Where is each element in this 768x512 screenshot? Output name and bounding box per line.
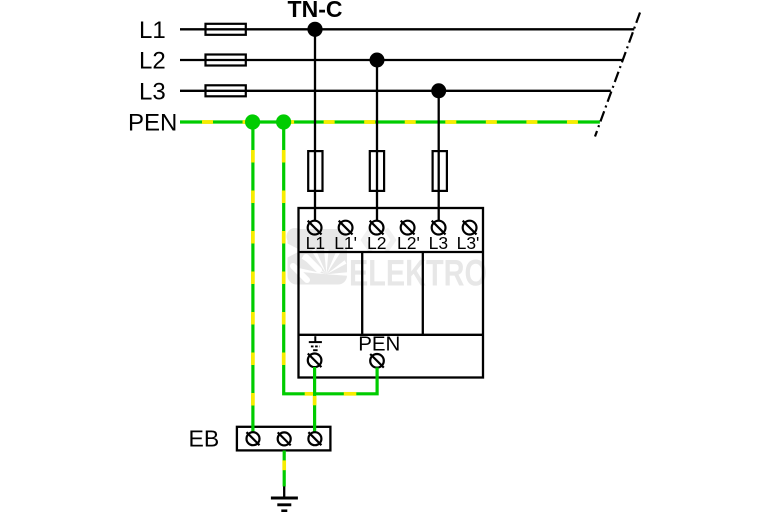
wire L1 horizontal	[180, 28, 634, 30]
terminal L3'	[463, 221, 477, 235]
terminal L1	[308, 221, 322, 235]
SPD box vertical divider 2	[422, 252, 424, 335]
svg-text:L3: L3	[429, 233, 448, 253]
svg-text:L1: L1	[139, 17, 166, 44]
earth wire from SPD earth terminal to EB	[313, 367, 316, 433]
svg-text:L3': L3'	[457, 233, 480, 253]
terminal L3	[432, 221, 446, 235]
EB terminal 1	[247, 432, 260, 445]
svg-text:ELEKTRO: ELEKTRO	[349, 251, 487, 293]
wire L2 horizontal	[180, 59, 623, 61]
SPD box divider above bottom row	[299, 334, 484, 336]
svg-text:L2: L2	[367, 233, 386, 253]
svg-text:EB: EB	[189, 426, 220, 452]
svg-text:L2: L2	[139, 48, 166, 75]
earth symbol inside SPD	[309, 336, 322, 350]
node PEN 2 (green junction dot)	[276, 114, 291, 129]
svg-text:PEN: PEN	[128, 110, 177, 137]
terminal earth (SPD bottom)	[308, 354, 322, 368]
EB terminal bar	[237, 427, 331, 451]
terminal PEN (SPD bottom)	[370, 354, 384, 368]
svg-text:L2': L2'	[397, 233, 420, 253]
PEN wire yellow dash overlay	[180, 120, 600, 124]
svg-text:L1: L1	[306, 233, 325, 253]
SPD disconnector fuse 1 (vertical)	[308, 151, 322, 191]
ground symbol stem	[283, 486, 285, 497]
fuse F1 (L1 line)	[206, 24, 246, 35]
svg-text:PEN: PEN	[358, 332, 400, 355]
watermark chevrons	[364, 229, 394, 251]
terminal L1'	[339, 221, 353, 235]
wire vertical from L3 node to SPD	[438, 91, 440, 221]
watermark logo white cutouts	[288, 244, 348, 281]
EB terminal 2	[278, 432, 291, 445]
wire vertical from L1 node to SPD	[314, 29, 316, 221]
PEN wire horizontal (green base)	[180, 120, 600, 123]
wire vertical from L2 node to SPD	[376, 60, 378, 221]
EB terminal 3	[308, 432, 321, 445]
node L3 (junction dot)	[431, 83, 446, 98]
terminal L2	[370, 221, 384, 235]
terminal labels row	[306, 233, 480, 253]
fuse F3 (L3 line)	[206, 85, 246, 96]
SPD box divider under terminal labels	[299, 251, 484, 253]
svg-text:L1': L1'	[334, 233, 357, 253]
PEN wire vertical 2 + jumper to SPD PEN terminal	[284, 122, 377, 394]
SPD box vertical divider 1	[361, 252, 363, 335]
wire EB to ground	[283, 451, 286, 487]
SPD box outline	[299, 208, 484, 378]
node PEN 1 (green junction dot)	[245, 114, 260, 129]
svg-text:L3: L3	[139, 78, 166, 105]
svg-text:TN-C: TN-C	[288, 0, 343, 22]
SPD disconnector fuse 2 (vertical)	[370, 151, 384, 191]
PEN wire vertical 1 (to EB) green base	[251, 122, 254, 433]
fuse F2 (L2 line)	[206, 55, 246, 66]
node L1 (junction dot)	[307, 22, 322, 37]
node L2 (junction dot)	[370, 53, 385, 68]
watermark logo blob	[287, 228, 348, 285]
ground symbol bars	[271, 497, 298, 500]
terminal L2'	[401, 221, 415, 235]
diagonal boundary line (dash-dot)	[595, 13, 640, 137]
wire L3 horizontal	[180, 90, 611, 92]
SPD disconnector fuse 3 (vertical)	[433, 151, 447, 191]
